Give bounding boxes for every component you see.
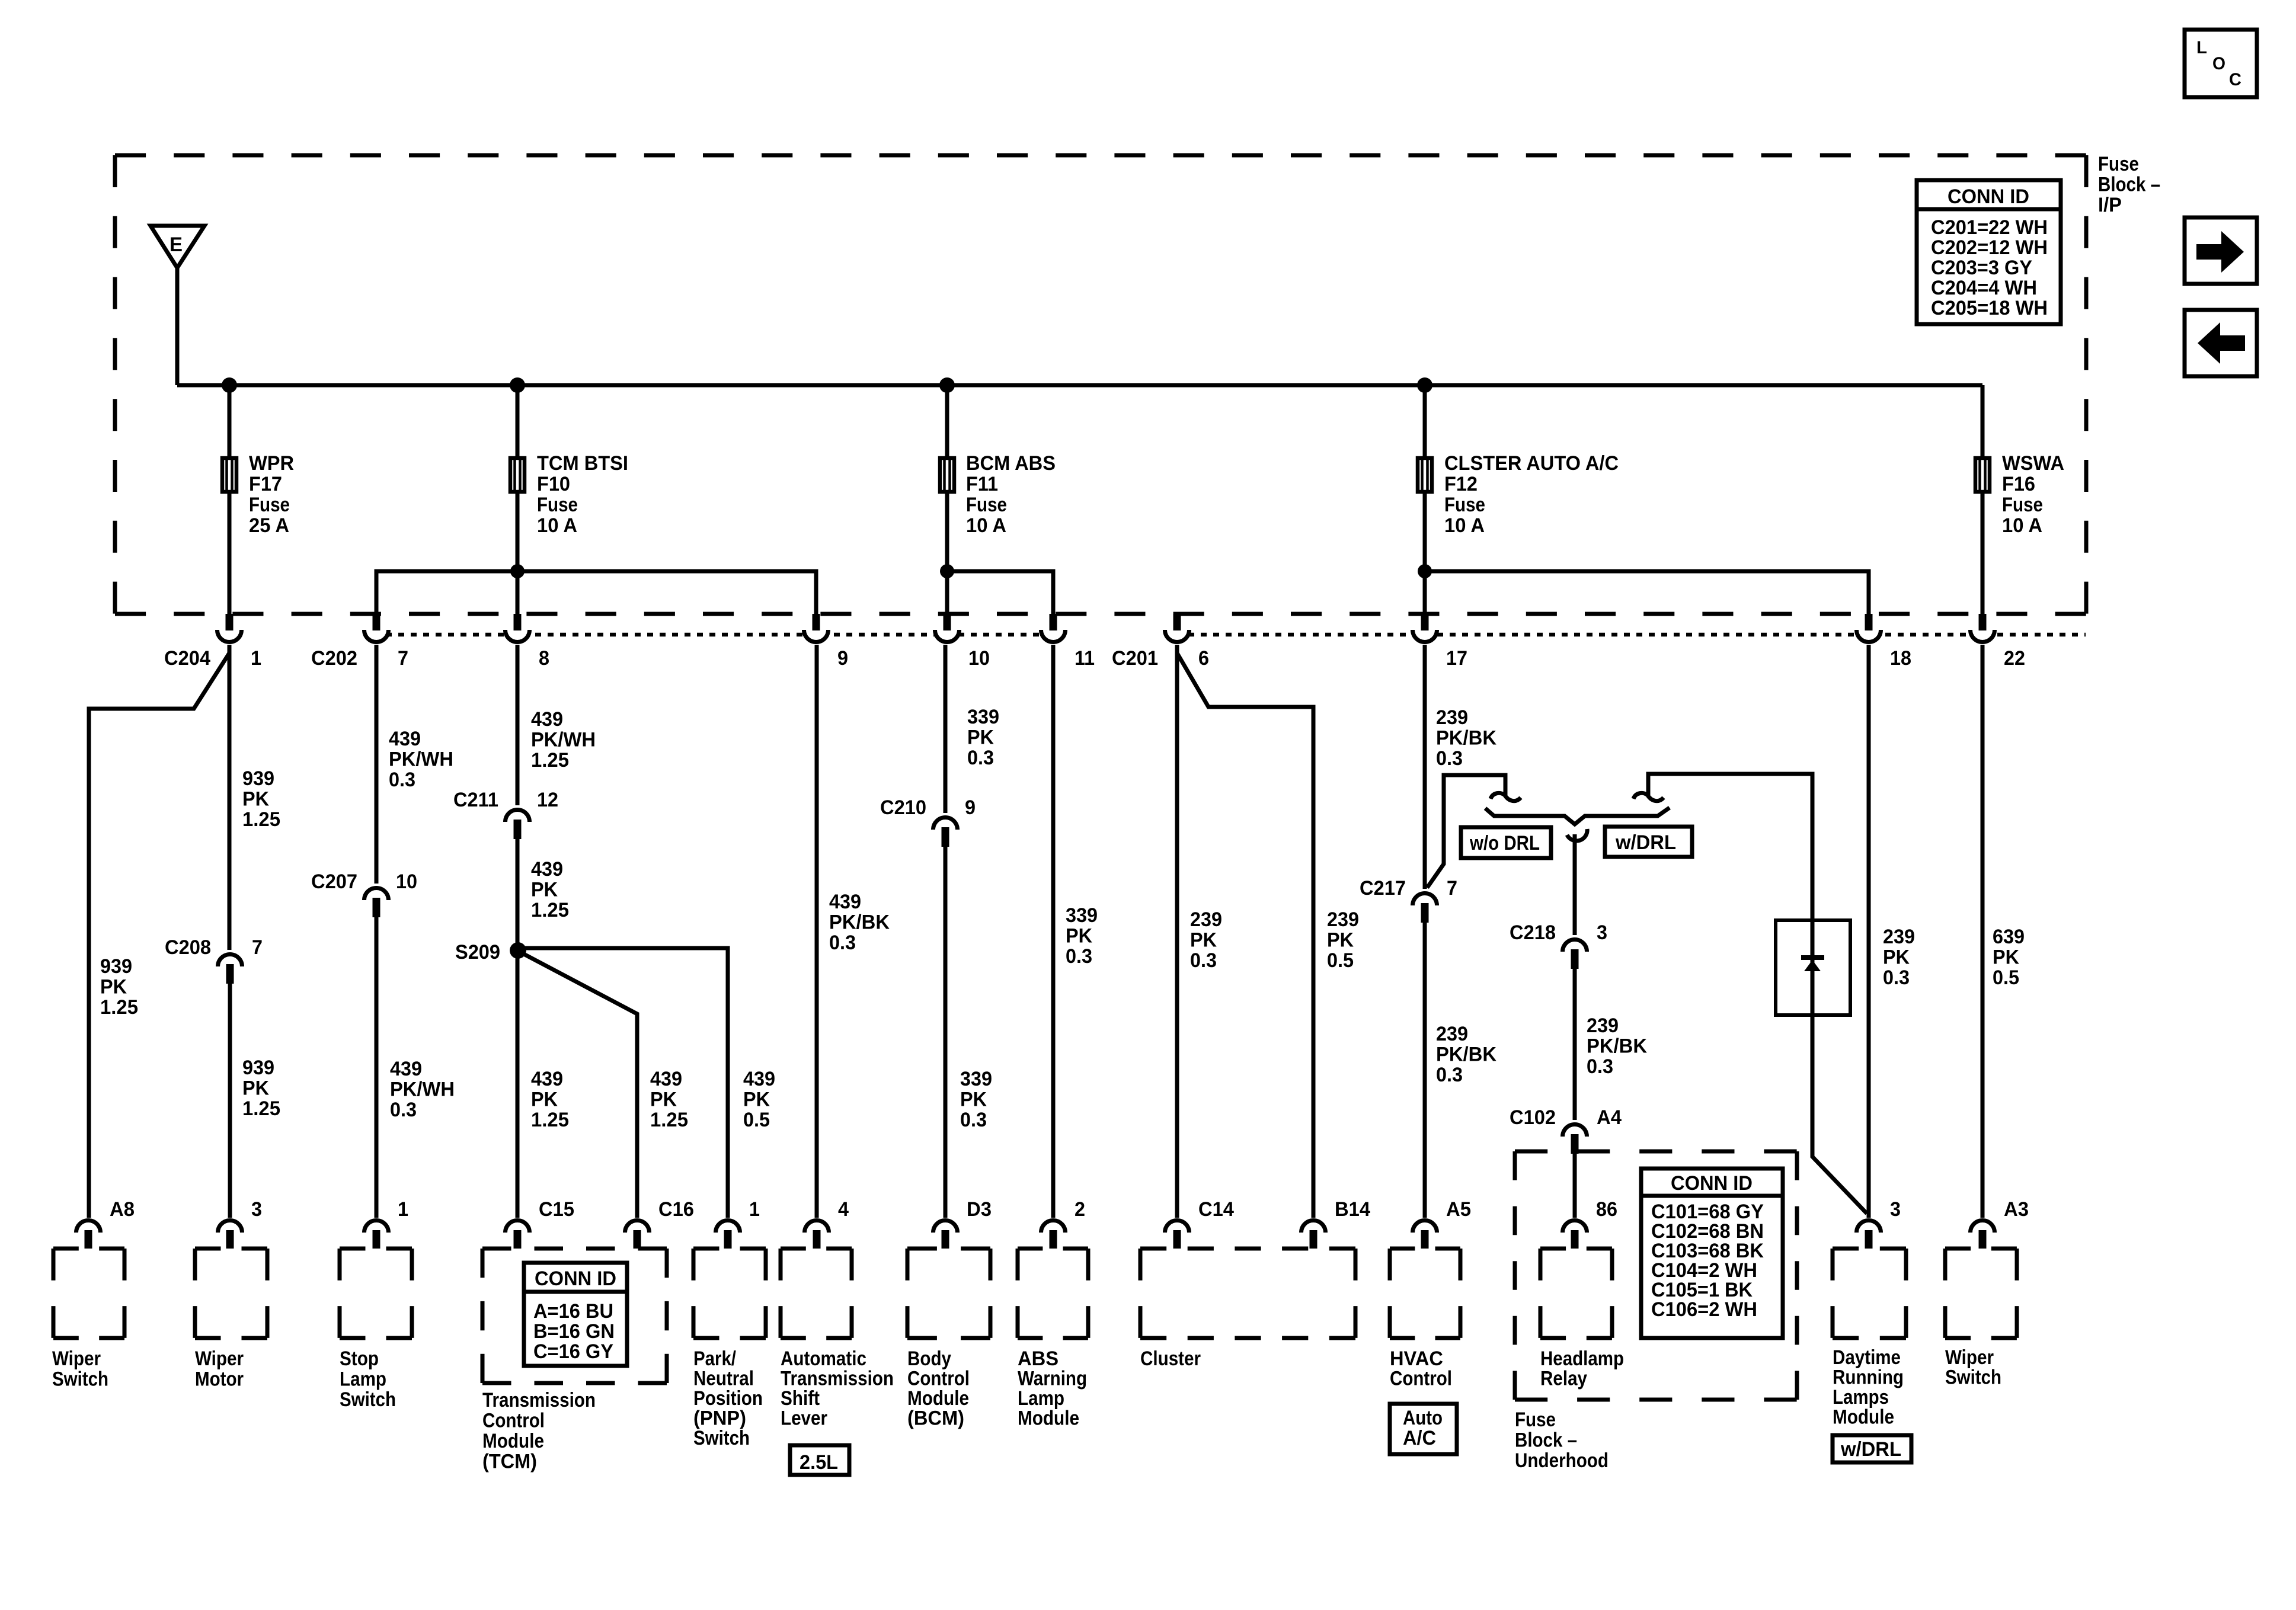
diode [1801, 955, 1824, 971]
wire S209 to C16 [522, 953, 637, 1218]
svg-text:A4: A4 [1597, 1106, 1622, 1129]
svg-text:439: 439 [531, 1068, 563, 1090]
svg-text:22: 22 [2004, 647, 2025, 670]
svg-text:Module: Module [1018, 1407, 1079, 1430]
svg-text:PK: PK [242, 1077, 269, 1100]
svg-text:10 A: 10 A [2002, 514, 2042, 537]
svg-text:Stop: Stop [340, 1347, 379, 1370]
svg-text:Body: Body [907, 1347, 951, 1370]
connector pin 8 (fuse block row) [506, 614, 550, 670]
label 239 PK 0.3 (C14) [1190, 908, 1222, 972]
label 439 PK/WH 0.3 (C202-C207) [389, 728, 453, 791]
svg-text:939: 939 [242, 1057, 274, 1079]
svg-text:B14: B14 [1335, 1198, 1370, 1221]
svg-text:0.5: 0.5 [743, 1109, 770, 1131]
previous-page arrow box [2185, 310, 2257, 376]
wire C102 to headlamp relay 86 [1573, 1154, 1577, 1218]
wire C207 to stop lamp switch [375, 917, 379, 1218]
svg-text:w/o DRL: w/o DRL [1469, 832, 1540, 854]
connector pin A3 (component) [1971, 1198, 2029, 1249]
svg-text:F10: F10 [537, 473, 570, 495]
svg-text:0.3: 0.3 [1436, 1064, 1463, 1086]
svg-text:WPR: WPR [249, 452, 294, 475]
connector pin 9 (fuse block row) [804, 614, 849, 670]
svg-text:C210: C210 [880, 796, 926, 819]
svg-text:PK/BK: PK/BK [1436, 1044, 1496, 1066]
fuse F11 BCM ABS [940, 452, 1056, 537]
wire C201-6 branch to cluster B14 [1177, 653, 1313, 1218]
HVAC control box [1390, 1249, 1460, 1338]
svg-text:239: 239 [1587, 1014, 1619, 1037]
daytime running lamps module box [1833, 1249, 1906, 1338]
contact hook common [1567, 829, 1587, 841]
svg-text:PK: PK [650, 1089, 677, 1111]
svg-text:Fuse: Fuse [2098, 153, 2139, 175]
svg-text:C201: C201 [1112, 647, 1158, 670]
fuse block I/P dashed box [115, 155, 2086, 614]
w/DRL option box [1605, 827, 1692, 857]
connector pin A5 (component) [1413, 1198, 1472, 1249]
svg-text:Fuse: Fuse [1515, 1409, 1556, 1431]
svg-text:239: 239 [1190, 908, 1222, 931]
dotted connector line C202 [373, 633, 1055, 637]
branch wire F12 outputs [1425, 571, 1869, 616]
wire diode to DRL pin 3 [1812, 1015, 1867, 1214]
junction on bus x=387 [222, 377, 237, 393]
svg-text:F16: F16 [2002, 473, 2035, 495]
wire through diode box [1811, 920, 1815, 1015]
svg-text:CLSTER AUTO A/C: CLSTER AUTO A/C [1444, 452, 1619, 475]
svg-text:Fuse: Fuse [537, 494, 578, 516]
svg-text:PK/WH: PK/WH [389, 748, 453, 771]
svg-text:F11: F11 [966, 473, 998, 495]
label 439 PK/WH 0.3 (C207-stop lamp) [390, 1058, 455, 1121]
wire F12 down [1423, 494, 1427, 616]
svg-text:439: 439 [389, 728, 421, 750]
svg-text:Neutral: Neutral [693, 1368, 754, 1390]
connector pin 10 (fuse block row) [935, 614, 990, 670]
svg-text:C203=3 GY: C203=3 GY [1931, 257, 2032, 279]
label 239 PK/BK 0.3 (C218-C102) [1587, 1014, 1647, 1078]
label Headlamp Relay [1540, 1347, 1624, 1390]
svg-text:0.3: 0.3 [1066, 945, 1092, 968]
svg-text:Lamps: Lamps [1833, 1386, 1889, 1409]
svg-text:1: 1 [749, 1198, 760, 1221]
svg-text:C205=18 WH: C205=18 WH [1931, 297, 2048, 319]
ABS warning lamp module box [1018, 1249, 1088, 1338]
wire bus to fuse x=2404 [1423, 385, 1427, 457]
svg-text:239: 239 [1436, 1023, 1468, 1045]
svg-text:18: 18 [1890, 647, 1911, 670]
label 439 PK/BK 0.3 (shift lever) [829, 891, 890, 954]
svg-text:0.3: 0.3 [1436, 747, 1463, 770]
label 439 PK/WH 1.25 (pin8-C211) [531, 708, 596, 772]
LOC legend box [2185, 30, 2257, 97]
fuse F10 TCM BTSI [510, 452, 628, 537]
svg-text:Relay: Relay [1540, 1368, 1587, 1390]
svg-text:639: 639 [1993, 926, 2025, 948]
svg-text:0.3: 0.3 [1587, 1055, 1613, 1078]
svg-text:439: 439 [531, 858, 563, 881]
svg-text:1.25: 1.25 [650, 1109, 688, 1131]
svg-text:C218: C218 [1510, 921, 1556, 944]
svg-text:Switch: Switch [340, 1388, 396, 1411]
connector pin A8 (component) [76, 1198, 135, 1249]
svg-text:Module: Module [482, 1430, 544, 1452]
alternatives brace [1485, 808, 1670, 824]
wiper switch box [53, 1249, 124, 1338]
svg-text:C217: C217 [1360, 877, 1406, 900]
svg-text:1: 1 [398, 1198, 408, 1221]
connector pin 18 (fuse block row) [1857, 614, 1912, 670]
svg-text:10: 10 [396, 870, 417, 893]
svg-text:439: 439 [829, 891, 861, 913]
svg-text:Lamp: Lamp [1018, 1387, 1064, 1410]
svg-text:2: 2 [1075, 1198, 1085, 1221]
CONN ID table (underhood) [1641, 1169, 1783, 1338]
wire bus to fuse x=873 [516, 385, 520, 457]
wire F17 to C204 [228, 494, 232, 616]
svg-text:C202=12 WH: C202=12 WH [1931, 236, 2048, 259]
wire C218 to C102 [1573, 969, 1577, 1120]
BCM box [907, 1249, 990, 1338]
wire common to C218 [1573, 834, 1577, 935]
svg-text:C14: C14 [1198, 1198, 1234, 1221]
svg-text:PK: PK [743, 1089, 770, 1111]
svg-text:BCM ABS: BCM ABS [966, 452, 1056, 475]
svg-text:PK: PK [960, 1089, 987, 1111]
svg-text:Module: Module [1833, 1406, 1894, 1429]
svg-text:I/P: I/P [2098, 194, 2122, 216]
label 439 PK 1.25 (C211-S209) [531, 858, 569, 921]
svg-text:1.25: 1.25 [242, 808, 280, 831]
svg-text:O: O [2212, 54, 2225, 73]
svg-text:Wiper: Wiper [52, 1347, 101, 1370]
label ABS Warning Lamp Module [1018, 1347, 1087, 1430]
wire F11 down [945, 494, 949, 616]
TCM box [482, 1249, 667, 1383]
svg-text:Control: Control [1390, 1368, 1452, 1390]
wire C208 to wiper motor [228, 984, 232, 1218]
svg-text:Control: Control [907, 1368, 970, 1390]
svg-text:9: 9 [837, 647, 848, 670]
svg-text:25 A: 25 A [249, 514, 289, 537]
svg-text:0.3: 0.3 [967, 747, 994, 769]
label Fuse Block - Underhood [1515, 1409, 1609, 1472]
label 439 PK 1.25 (S209-C15) [531, 1068, 569, 1131]
svg-text:939: 939 [100, 955, 132, 978]
svg-text:3: 3 [1597, 921, 1607, 944]
wire bus to fuse x=3345 [1981, 385, 1985, 457]
svg-text:CONN ID: CONN ID [1671, 1172, 1753, 1195]
svg-text:439: 439 [531, 708, 563, 731]
connector pin 86 (component) [1563, 1198, 1618, 1249]
svg-text:PK/BK: PK/BK [1587, 1035, 1647, 1058]
label 239 PK 0.5 (B14) [1327, 908, 1359, 972]
2.5L tag box [790, 1445, 849, 1475]
svg-text:9: 9 [965, 796, 976, 819]
svg-text:339: 339 [1066, 904, 1098, 927]
svg-text:TCM BTSI: TCM BTSI [537, 452, 628, 475]
branch wire F10 outputs [376, 571, 816, 616]
w/o DRL option box [1461, 827, 1551, 858]
diode box [1776, 920, 1850, 1015]
svg-text:PK: PK [1883, 946, 1910, 969]
label 239 PK 0.3 (pin18) [1883, 926, 1915, 989]
svg-text:Module: Module [907, 1387, 969, 1410]
wire C202 to C207 [375, 645, 379, 884]
svg-text:PK/WH: PK/WH [390, 1078, 455, 1101]
connector pin C15 (component) [506, 1198, 575, 1249]
svg-text:E: E [170, 233, 183, 256]
svg-text:4: 4 [838, 1198, 849, 1221]
fuse block underhood dashed box [1515, 1151, 1797, 1400]
svg-text:Headlamp: Headlamp [1540, 1347, 1624, 1370]
fuse F17 WPR [222, 452, 294, 537]
wire w/DRL contact to diode [1648, 774, 1812, 921]
junction F11 branch [940, 564, 954, 578]
wire S209 to C15 [516, 950, 520, 1218]
svg-text:Lamp: Lamp [340, 1368, 386, 1391]
stop lamp switch box [340, 1249, 412, 1338]
label Fuse Block - I/P [2098, 153, 2160, 216]
svg-text:339: 339 [967, 706, 999, 728]
svg-text:C16: C16 [658, 1198, 694, 1221]
svg-text:239: 239 [1883, 926, 1915, 948]
label 439 PK 0.5 (PNP) [743, 1068, 775, 1131]
svg-text:10 A: 10 A [966, 514, 1006, 537]
svg-text:Warning: Warning [1018, 1368, 1087, 1390]
wire C204 branch to wiper switch [89, 653, 229, 1218]
label Daytime Running Lamps Module [1833, 1346, 1904, 1429]
svg-text:239: 239 [1436, 706, 1468, 729]
svg-text:Switch: Switch [693, 1427, 750, 1449]
svg-text:C204: C204 [164, 647, 210, 670]
svg-text:C106=2 WH: C106=2 WH [1651, 1298, 1757, 1321]
wire C211 to S209 [516, 839, 520, 950]
wire E to bus [175, 266, 180, 385]
svg-text:3: 3 [1890, 1198, 1901, 1221]
contact w/o DRL [1491, 793, 1521, 801]
svg-text:A3: A3 [2004, 1198, 2029, 1221]
connector C207 pin 10 [311, 870, 417, 917]
wire F16 to pin22 [1981, 494, 1985, 616]
svg-text:Auto: Auto [1403, 1407, 1443, 1429]
svg-text:17: 17 [1446, 647, 1467, 670]
svg-text:Fuse: Fuse [966, 494, 1007, 516]
wire C210 to BCM [944, 847, 948, 1218]
svg-text:PK: PK [1066, 925, 1092, 948]
svg-text:PK: PK [531, 879, 558, 901]
svg-text:439: 439 [390, 1058, 422, 1080]
connector pin 3 (component) [218, 1198, 263, 1249]
wire bus to fuse x=387 [228, 385, 232, 457]
wire C217 branch to w/o DRL contact [1427, 775, 1505, 888]
svg-text:C102: C102 [1510, 1106, 1556, 1129]
svg-text:Wiper: Wiper [195, 1347, 244, 1370]
connector pin 11 (fuse block row) [1041, 614, 1095, 670]
svg-text:C15: C15 [539, 1198, 574, 1221]
connector C217 pin 7 [1360, 877, 1457, 923]
label 439 PK 1.25 (C16) [650, 1068, 688, 1131]
svg-text:(PNP): (PNP) [693, 1407, 746, 1430]
svg-text:C=16 GY: C=16 GY [533, 1340, 613, 1363]
svg-text:Lever: Lever [781, 1407, 827, 1430]
svg-text:PK: PK [967, 726, 994, 749]
svg-text:PK: PK [531, 1089, 558, 1111]
wire bus to fuse x=1598 [945, 385, 949, 457]
connector pin C14 (component) [1165, 1198, 1234, 1249]
svg-text:C211: C211 [453, 789, 498, 811]
svg-text:Automatic: Automatic [781, 1347, 866, 1370]
svg-text:2.5L: 2.5L [800, 1451, 838, 1474]
junction F10 branch [510, 564, 525, 578]
svg-text:1.25: 1.25 [531, 749, 569, 772]
svg-text:B=16 GN: B=16 GN [533, 1320, 615, 1343]
svg-text:Park/: Park/ [693, 1347, 736, 1370]
junction on bus x=2404 [1417, 377, 1432, 393]
svg-text:w/DRL: w/DRL [1615, 831, 1676, 854]
label 239 PK/BK 0.3 (C217-A5) [1436, 1023, 1496, 1086]
svg-text:0.3: 0.3 [389, 769, 415, 791]
label 939 PK 1.25 (C204-C208) [242, 767, 280, 831]
svg-text:PK: PK [1327, 929, 1354, 952]
next-page arrow box [2185, 217, 2257, 284]
connector pin 1 (component) [716, 1198, 760, 1249]
label Body Control Module (BCM) [907, 1347, 970, 1430]
svg-text:Running: Running [1833, 1366, 1904, 1389]
svg-text:7: 7 [252, 936, 263, 959]
connector C202 7 (fuse block row) [311, 614, 408, 670]
svg-text:7: 7 [1447, 877, 1457, 900]
svg-text:C208: C208 [165, 936, 211, 959]
svg-text:Motor: Motor [195, 1368, 244, 1391]
svg-text:8: 8 [539, 647, 549, 670]
svg-text:C204=4 WH: C204=4 WH [1931, 277, 2037, 299]
shift lever box [781, 1249, 852, 1338]
svg-text:HVAC: HVAC [1390, 1347, 1443, 1370]
wire C217 to HVAC A5 [1423, 923, 1427, 1218]
svg-text:Shift: Shift [781, 1387, 820, 1410]
svg-text:C: C [2229, 70, 2241, 89]
svg-text:Control: Control [482, 1410, 545, 1432]
connector pin C16 (component) [625, 1198, 695, 1249]
wire C204 to C208 [228, 645, 232, 950]
svg-text:ABS: ABS [1018, 1347, 1059, 1370]
svg-text:0.5: 0.5 [1993, 966, 2019, 989]
svg-text:0.3: 0.3 [1883, 966, 1910, 989]
svg-text:F12: F12 [1444, 473, 1478, 495]
svg-text:239: 239 [1327, 908, 1359, 931]
label Wiper Switch (A3) [1945, 1346, 2001, 1389]
connector C210 pin 9 [880, 796, 976, 847]
CONN ID table (fuse block I/P) [1917, 180, 2061, 324]
contact w/DRL [1633, 793, 1664, 801]
svg-text:Wiper: Wiper [1945, 1346, 1994, 1369]
svg-text:Fuse: Fuse [249, 494, 290, 516]
svg-text:Position: Position [693, 1387, 763, 1410]
label 339 PK 0.3 (C210-BCM) [960, 1068, 992, 1131]
label 339 PK 0.3 (pin10-C210) [967, 706, 999, 769]
CONN ID table (TCM) [524, 1263, 627, 1366]
connector C211 pin 12 [453, 789, 558, 839]
svg-text:CONN ID: CONN ID [535, 1267, 616, 1290]
svg-text:10 A: 10 A [537, 514, 577, 537]
wiper motor box [195, 1249, 267, 1338]
wire pin9 to shift lever [815, 645, 819, 1218]
svg-text:D3: D3 [967, 1198, 992, 1221]
svg-text:439: 439 [650, 1068, 682, 1090]
svg-text:0.3: 0.3 [390, 1099, 417, 1121]
svg-text:Transmission: Transmission [482, 1389, 596, 1411]
svg-text:10 A: 10 A [1444, 514, 1485, 537]
svg-text:F17: F17 [249, 473, 282, 495]
branch wire F11 outputs [947, 571, 1053, 616]
connector C208 pin 7 [165, 936, 263, 984]
svg-text:CONN ID: CONN ID [1948, 185, 2029, 208]
junction on bus x=873 [510, 377, 525, 393]
w/DRL tag box [1833, 1435, 1911, 1462]
bus wire [177, 383, 1982, 388]
fuse F12 CLSTER AUTO A/C [1418, 452, 1619, 537]
connector C204 1 (fuse block row) [164, 614, 261, 670]
wire F10 down [516, 494, 520, 616]
svg-text:0.3: 0.3 [1190, 949, 1217, 972]
svg-text:0.5: 0.5 [1327, 949, 1354, 972]
svg-text:Fuse: Fuse [2002, 494, 2043, 516]
connector pin 22 (fuse block row) [1971, 614, 2026, 670]
svg-text:0.3: 0.3 [960, 1109, 987, 1131]
svg-text:12: 12 [537, 789, 558, 811]
junction F12 branch [1418, 564, 1432, 578]
label Wiper Motor [195, 1347, 244, 1391]
svg-text:WSWA: WSWA [2002, 452, 2064, 475]
connector pin 17 (fuse block row) [1413, 614, 1468, 670]
connector pin B14 (component) [1302, 1198, 1371, 1249]
svg-text:Cluster: Cluster [1140, 1347, 1201, 1370]
svg-text:A/C: A/C [1403, 1427, 1436, 1449]
connector pin 3 (component) [1857, 1198, 1901, 1249]
svg-text:1.25: 1.25 [242, 1097, 280, 1120]
wire S209 to PNP switch [518, 948, 728, 1218]
svg-text:PK/WH: PK/WH [531, 729, 596, 751]
label Stop Lamp Switch [340, 1347, 396, 1411]
cluster box [1140, 1249, 1355, 1338]
svg-text:PK: PK [242, 788, 269, 811]
svg-text:Switch: Switch [52, 1368, 108, 1391]
label 639 PK 0.5 (pin22) [1993, 926, 2025, 989]
connector pin 1 (component) [364, 1198, 409, 1249]
svg-text:(TCM): (TCM) [482, 1451, 537, 1473]
svg-text:L: L [2196, 38, 2207, 57]
label 939 PK 1.25 (wiper switch) [100, 955, 138, 1019]
label HVAC Control [1390, 1347, 1452, 1390]
svg-text:A=16 BU: A=16 BU [533, 1300, 613, 1323]
svg-text:439: 439 [743, 1068, 775, 1090]
svg-text:86: 86 [1596, 1198, 1617, 1221]
wire C201-6 to cluster C14 [1175, 645, 1179, 1218]
dotted connector line C201 [1176, 633, 2086, 637]
label 239 PK/BK 0.3 (pin17) [1436, 706, 1496, 770]
wire pin8 to C211 [516, 645, 520, 805]
svg-text:Block –: Block – [2098, 174, 2160, 196]
wire pin10 to C210 [944, 645, 948, 813]
svg-text:3: 3 [251, 1198, 262, 1221]
svg-text:10: 10 [968, 647, 990, 670]
wire pin18 to DRL module [1867, 645, 1871, 1218]
svg-text:PK: PK [1190, 929, 1217, 952]
svg-text:A5: A5 [1446, 1198, 1471, 1221]
